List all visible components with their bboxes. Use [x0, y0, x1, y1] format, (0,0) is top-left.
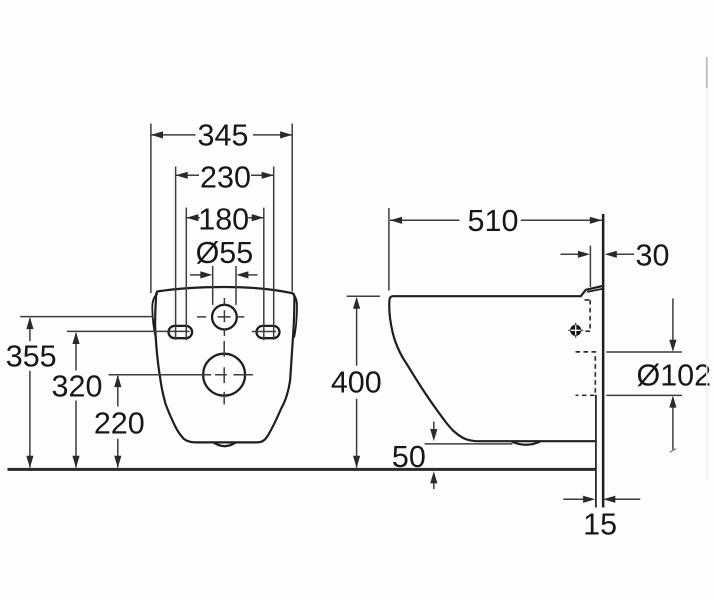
svg-text:510: 510 [468, 204, 519, 238]
fixing screw symbol [568, 323, 583, 338]
svg-text:230: 230 [200, 160, 251, 194]
right mounting slot [257, 326, 280, 338]
front view toilet outline [155, 287, 294, 442]
extension line 50 [425, 443, 513, 445]
svg-text:400: 400 [331, 366, 382, 400]
dimension O55 arrows [190, 236, 258, 278]
dimension 30 [561, 238, 670, 272]
svg-text:220: 220 [94, 407, 145, 441]
wall line [602, 214, 605, 508]
extension line 30 [589, 246, 591, 287]
dimension O102 [636, 298, 711, 452]
dimension 15 [563, 496, 640, 542]
edge artifact [706, 57, 708, 480]
dimension 230 [176, 160, 274, 194]
left mounting slot [169, 326, 193, 338]
reference line 400 [347, 295, 380, 297]
front view left ear lip [152, 294, 157, 337]
outlet circle [203, 354, 245, 396]
svg-text:180: 180 [198, 203, 249, 237]
hole circle O55 [212, 305, 237, 330]
svg-text:Ø55: Ø55 [196, 236, 254, 270]
dimension 320 [52, 332, 103, 468]
hidden outlet box dashes [576, 352, 596, 395]
dimension 400 [331, 297, 382, 468]
hidden flush channel dashes [583, 300, 590, 331]
bottom outlet nub [214, 443, 236, 447]
dimension 510 [390, 204, 602, 238]
side view toilet outline [389, 286, 602, 441]
svg-text:Ø102: Ø102 [636, 359, 711, 393]
ground line [8, 468, 597, 471]
svg-text:355: 355 [6, 339, 57, 373]
extension lines 345 [151, 124, 292, 294]
extension line 510 left [388, 208, 390, 291]
O55 centerlines [197, 298, 244, 336]
dimension 345 [151, 118, 292, 152]
dimension 220 [94, 375, 145, 468]
front view right ear lip [293, 294, 297, 337]
dimension 50 [392, 422, 437, 489]
svg-text:345: 345 [198, 118, 249, 152]
extension lines O55 [213, 266, 236, 305]
svg-text:320: 320 [52, 370, 103, 404]
svg-text:30: 30 [636, 238, 670, 272]
reference line 355 [20, 316, 153, 318]
right slot centerline [252, 331, 276, 333]
reference line 220 [109, 374, 212, 376]
svg-text:15: 15 [583, 507, 617, 541]
extension lines 230 [176, 167, 274, 340]
side view rim lower ridge [588, 289, 602, 292]
extension lines O102 [606, 352, 682, 395]
wall inner line [595, 395, 597, 508]
extension lines 180 [186, 208, 263, 341]
dimension 355 [6, 317, 57, 468]
dimension 180 [186, 203, 263, 237]
outlet circle centerlines [215, 341, 253, 405]
reference line 320 [67, 330, 190, 332]
svg-text:50: 50 [392, 440, 426, 474]
side view outlet lens [513, 442, 540, 445]
